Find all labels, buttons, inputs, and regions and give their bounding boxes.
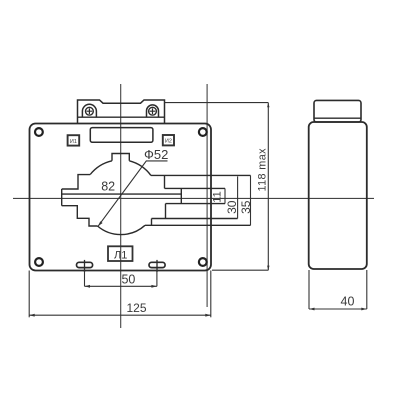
arrow 40 left xyxy=(309,308,315,311)
svg-text:125: 125 xyxy=(126,301,146,315)
corner hole top-right xyxy=(199,128,207,136)
window arc bottom xyxy=(98,225,146,234)
vertical centerline of front view xyxy=(120,84,122,328)
terminal label box I2 xyxy=(163,135,174,145)
left screw circle xyxy=(86,107,94,115)
right screw arch xyxy=(147,105,159,117)
nameplate rectangle xyxy=(90,128,153,143)
dimension line 125 xyxy=(29,314,211,316)
corner hole bottom-right xyxy=(199,258,207,266)
arrow 50 right xyxy=(151,285,157,288)
extension line from body bottom to 118 dim xyxy=(212,269,268,271)
svg-text:118 max: 118 max xyxy=(257,148,269,192)
svg-text:Л1: Л1 xyxy=(114,250,127,262)
dimension 125 right extension xyxy=(210,271,212,318)
dimension 40 left extension xyxy=(308,270,310,309)
svg-text:50: 50 xyxy=(121,272,135,286)
mounting slot right xyxy=(149,262,165,267)
svg-text:30: 30 xyxy=(225,200,239,214)
dimension 40 right extension xyxy=(366,270,368,309)
slot step vertical lower-right xyxy=(151,219,153,226)
slot left center tick xyxy=(84,260,86,272)
mounting slot left xyxy=(77,262,93,267)
arrow 118 bottom xyxy=(267,266,269,271)
slot line 30 bottom xyxy=(152,218,238,220)
dimension line 40 xyxy=(309,308,367,310)
window arc upper-right xyxy=(129,161,151,176)
slot line 35 top xyxy=(151,174,251,176)
busbar bottom edge xyxy=(166,203,226,205)
slot step vertical V1 xyxy=(164,175,166,188)
side view cap xyxy=(314,100,361,122)
side view cap inner line xyxy=(314,117,361,119)
dimension line 118 max xyxy=(267,103,269,271)
svg-text:35: 35 xyxy=(239,200,253,214)
svg-text:И1: И1 xyxy=(70,139,77,145)
primary label box L1 xyxy=(108,246,133,261)
arrow 125 left xyxy=(29,314,35,317)
dimension 125 left extension xyxy=(28,271,30,318)
svg-text:Ф52: Ф52 xyxy=(144,147,168,162)
right screw cross xyxy=(150,108,156,114)
left vertical edge of 82 boss xyxy=(61,189,63,206)
dimension 50 left extension xyxy=(84,270,86,286)
svg-text:40: 40 xyxy=(341,294,355,308)
arrow 40 right xyxy=(361,308,367,311)
terminal block base line xyxy=(78,116,165,118)
busbar right vertical xyxy=(180,188,182,203)
front body outline xyxy=(30,124,212,271)
window top tab xyxy=(112,154,129,161)
svg-text:И2: И2 xyxy=(165,139,172,145)
diameter leader line F52 xyxy=(98,161,168,226)
extension line from terminal top to 118 dim xyxy=(165,102,269,104)
window arc upper-left xyxy=(90,161,112,175)
dimension line 11 xyxy=(224,188,226,203)
terminal block outline xyxy=(78,100,165,124)
busbar top edge (82 dimension line) xyxy=(62,193,182,195)
svg-text:82: 82 xyxy=(101,179,115,193)
right screw circle xyxy=(149,107,157,115)
left stepped profile lower xyxy=(62,206,98,226)
dimension line 30 xyxy=(237,176,239,218)
terminal label box I1 xyxy=(68,135,80,145)
horizontal centerline through both views xyxy=(13,197,374,199)
side view body xyxy=(309,122,367,269)
left stepped profile upper xyxy=(62,175,90,189)
left screw arch xyxy=(82,104,96,117)
leader arrowhead xyxy=(98,221,103,226)
dimension line 35 xyxy=(250,175,252,225)
left screw cross xyxy=(87,108,93,114)
slot line 11 top xyxy=(165,187,226,189)
slot step vertical V3 xyxy=(165,204,167,219)
arrow 125 right xyxy=(205,314,211,317)
auxiliary vertical line at right of front view xyxy=(206,84,208,307)
slot line 35 bottom xyxy=(145,224,251,226)
arrow 118 top xyxy=(267,103,269,108)
slot right center tick xyxy=(156,260,158,272)
corner hole top-left xyxy=(35,128,43,136)
dimension 50 right extension xyxy=(156,270,158,286)
arrow 50 left xyxy=(85,285,91,288)
corner hole bottom-left xyxy=(35,258,43,266)
dimension line 50 xyxy=(85,285,157,287)
svg-text:11: 11 xyxy=(211,191,223,202)
